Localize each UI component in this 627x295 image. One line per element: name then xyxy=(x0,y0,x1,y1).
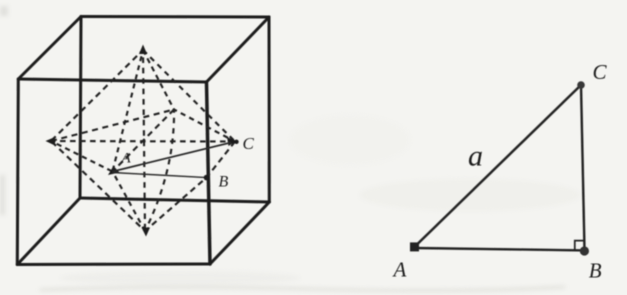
svg-text:C: C xyxy=(593,60,608,84)
svg-text:A: A xyxy=(121,151,132,167)
svg-text:A: A xyxy=(392,258,407,282)
svg-text:a: a xyxy=(468,140,483,173)
svg-text:B: B xyxy=(219,174,229,191)
svg-text:C: C xyxy=(243,134,255,153)
svg-text:B: B xyxy=(589,259,602,283)
